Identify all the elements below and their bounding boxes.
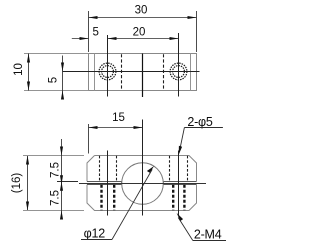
dim 30: [89, 11, 197, 52]
bore circle: [122, 163, 164, 205]
svg-text:2-M4: 2-M4: [194, 227, 222, 241]
hole circle right (threaded): [170, 63, 187, 80]
svg-text:5: 5: [48, 77, 60, 83]
dim 7.5 x2: [61, 139, 63, 216]
M4 hidden dashed lower block: [102, 185, 185, 211]
svg-text:15: 15: [112, 112, 125, 124]
svg-text:20: 20: [133, 26, 146, 38]
dim 10: [28, 54, 30, 91]
hidden bore edges dashed top view: [122, 54, 164, 90]
chamfer edge lines top view: [95, 54, 191, 91]
dim (16): [27, 156, 29, 211]
slit lines: [87, 182, 197, 185]
svg-text:5: 5: [92, 26, 98, 38]
bore centre lines: [142, 120, 144, 216]
bottom view outline with chamfers and slit breaks: [87, 156, 197, 211]
hole centre lines bottom view: [108, 151, 179, 216]
svg-text:10: 10: [13, 63, 25, 76]
svg-text:(16): (16): [11, 173, 23, 194]
hole centre lines vertical top view: [108, 33, 179, 97]
dim 5 vertical: [62, 56, 64, 97]
svg-text:7.5: 7.5: [50, 162, 62, 178]
svg-text:2-φ5: 2-φ5: [187, 115, 213, 129]
dim 15: [89, 124, 143, 154]
phi5 hidden dashed upper block: [100, 156, 188, 182]
top view body outline: [89, 54, 197, 91]
extension lines of 10 dim: [24, 54, 89, 91]
svg-text:φ12: φ12: [84, 226, 106, 240]
horizontal centre line top view: [63, 71, 200, 73]
slit line top view: [142, 54, 144, 98]
svg-text:7.5: 7.5: [50, 190, 62, 206]
svg-text:30: 30: [135, 5, 148, 17]
hole circle left (threaded): [99, 63, 116, 80]
dim 5 / 20 row: [72, 38, 179, 40]
